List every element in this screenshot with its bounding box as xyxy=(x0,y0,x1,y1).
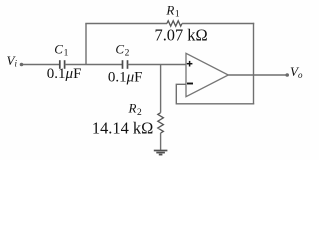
wire node B down to R2 xyxy=(160,65,162,113)
resistor R2 zigzag xyxy=(158,113,164,133)
wire - input feedback: left, down, along bottom xyxy=(176,84,254,104)
wire top rail left segment xyxy=(85,23,167,25)
wire top rail right segment xyxy=(182,23,254,25)
svg-text:0.1μF: 0.1μF xyxy=(108,70,143,86)
svg-text:7.07 kΩ: 7.07 kΩ xyxy=(155,26,208,45)
ground xyxy=(154,151,168,155)
wire C1 to C2 xyxy=(65,64,123,66)
node Vo terminal dot xyxy=(285,73,289,77)
wire op-amp output to Vo xyxy=(228,74,287,76)
capacitor C2 xyxy=(123,60,128,69)
op-amp U1 xyxy=(186,53,228,96)
op-amp - pin sign xyxy=(187,83,193,85)
svg-text:14.14 kΩ: 14.14 kΩ xyxy=(92,118,153,137)
wire C2 to op-amp + input xyxy=(128,64,187,66)
resistor R1 zigzag xyxy=(167,21,182,26)
wire Vi to C1 xyxy=(23,64,60,66)
op-amp + pin sign xyxy=(187,61,193,67)
wire R2 to ground xyxy=(160,133,162,150)
wire right vertical (output feedback bus) xyxy=(253,23,255,105)
wire node A up to top rail xyxy=(85,24,87,65)
node Vi terminal dot xyxy=(20,63,24,67)
svg-text:0.1μF: 0.1μF xyxy=(47,66,82,82)
capacitor C1 xyxy=(60,60,65,69)
